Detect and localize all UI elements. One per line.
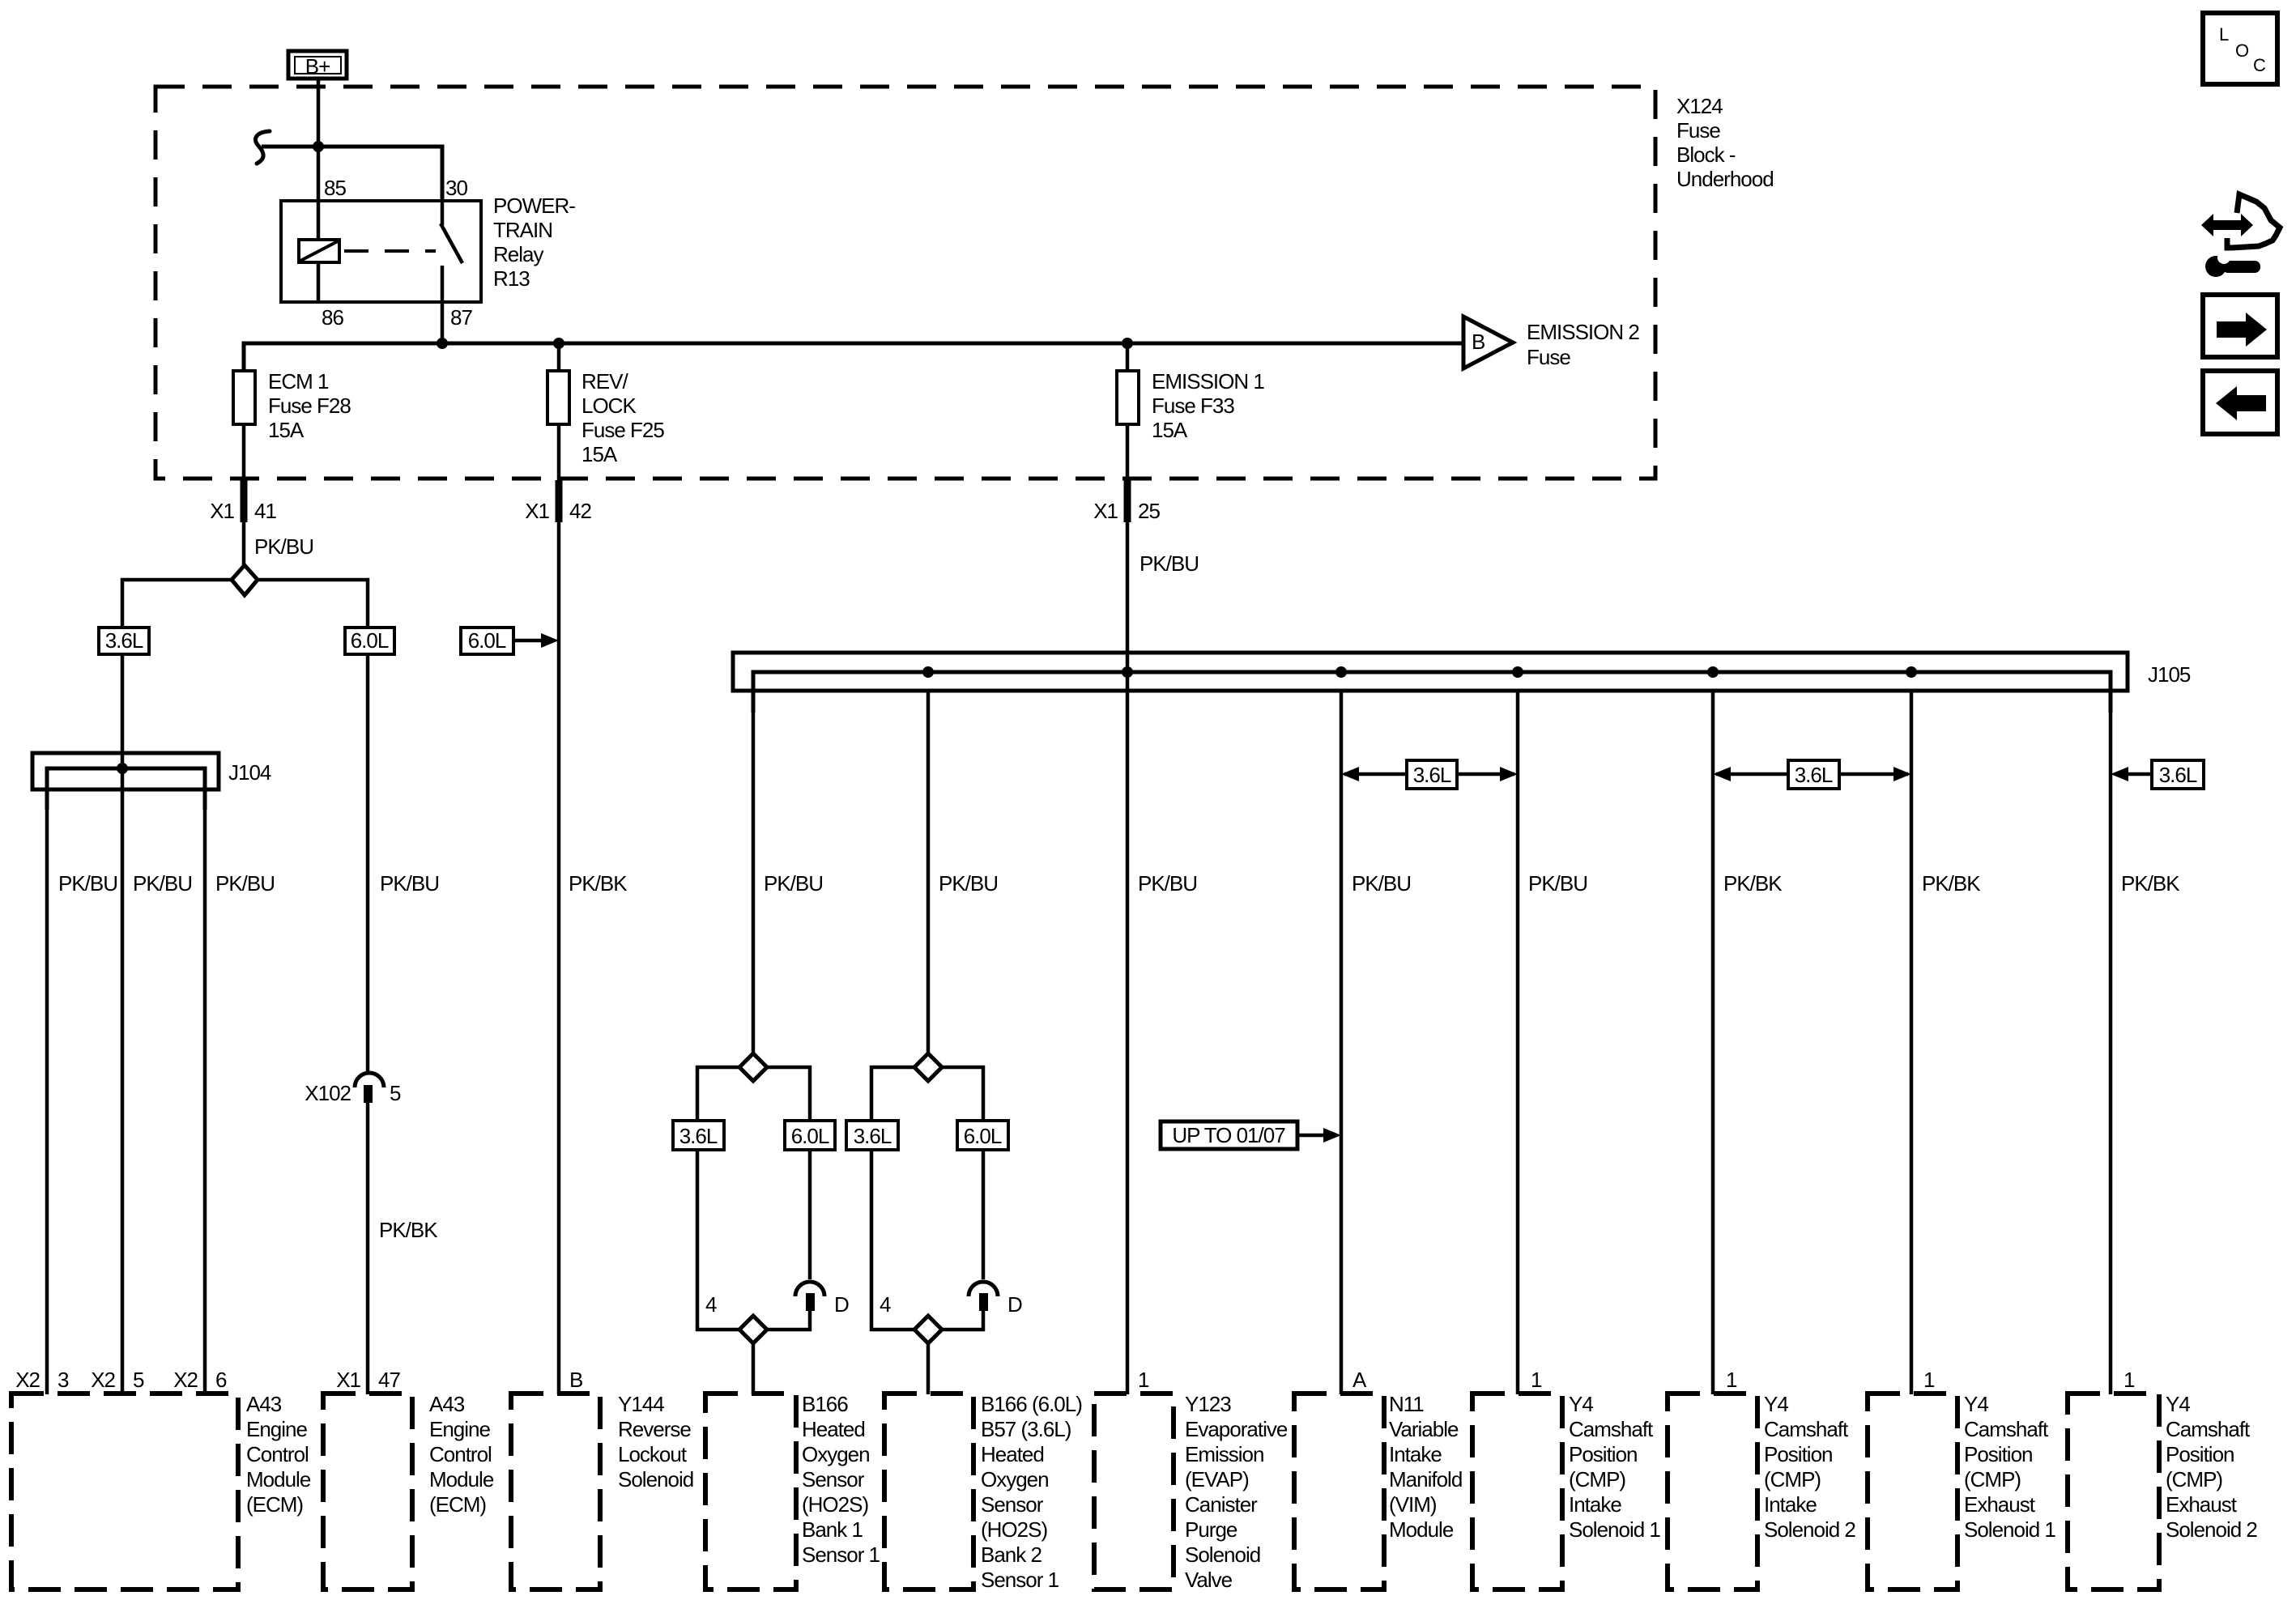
svg-text:PK/BK: PK/BK	[569, 871, 628, 896]
svg-text:1: 1	[2123, 1368, 2135, 1392]
component box Y144 reverse lockout solenoid	[511, 1394, 600, 1589]
svg-text:O: O	[2235, 40, 2249, 61]
svg-text:(CMP): (CMP)	[1964, 1467, 2021, 1491]
svg-text:Block -: Block -	[1676, 143, 1736, 167]
svg-text:X1: X1	[210, 499, 234, 523]
svg-text:3.6L: 3.6L	[854, 1124, 892, 1148]
option tag UP TO 01/07 with arrow to VIM wire	[1161, 1121, 1341, 1149]
svg-text:(CMP): (CMP)	[1569, 1467, 1625, 1491]
wire REV/LOCK fuse down to Y144	[557, 424, 561, 1394]
label Y144 Reverse Lockout Solenoid	[618, 1392, 693, 1491]
wire bank1 6.0L leg	[766, 1067, 810, 1279]
svg-text:15A: 15A	[581, 442, 618, 466]
wire J104 right leg to ECM X2-6	[203, 789, 207, 1394]
svg-text:Variable: Variable	[1389, 1417, 1459, 1441]
svg-text:PK/BK: PK/BK	[2121, 871, 2180, 896]
label B166 B57 HO2S Bank 2 Sensor 1	[981, 1392, 1082, 1592]
junction dot J105 EVAP	[1122, 666, 1133, 678]
svg-text:Y144: Y144	[618, 1392, 664, 1416]
svg-text:Fuse F33: Fuse F33	[1152, 394, 1234, 418]
svg-text:15A: 15A	[1152, 418, 1188, 442]
svg-text:Sensor: Sensor	[981, 1492, 1044, 1517]
junction dot bus/EMISSION1 fuse	[1122, 338, 1133, 349]
svg-text:PK/BU: PK/BU	[1138, 871, 1197, 896]
svg-text:PK/BU: PK/BU	[1352, 871, 1411, 896]
svg-text:Fuse: Fuse	[1676, 118, 1720, 143]
svg-text:Y4: Y4	[2166, 1392, 2190, 1416]
wire bank2 6.0L leg	[941, 1067, 983, 1279]
svg-text:X2: X2	[91, 1368, 115, 1392]
inline connector D bank2	[969, 1282, 1022, 1317]
svg-text:PK/BK: PK/BK	[1723, 871, 1783, 896]
fuse EMISSION 2 triangle outlet B	[1463, 317, 1639, 369]
label N11 Variable Intake Manifold Module	[1389, 1392, 1462, 1542]
inline connector X102 pin 5	[305, 1073, 401, 1105]
splice diamond HO2S bank1 bottom	[739, 1316, 767, 1343]
wire ECM1 fuse down through connector X1-41	[242, 424, 246, 565]
engine tag 3.6L double arrow VIM to CMP1	[1341, 760, 1518, 789]
svg-text:Solenoid 1: Solenoid 1	[1964, 1517, 2055, 1542]
svg-text:A: A	[1352, 1368, 1367, 1392]
component box Y4 CMP intake solenoid 1	[1472, 1394, 1562, 1589]
svg-text:Solenoid: Solenoid	[618, 1467, 693, 1491]
svg-text:Evaporative: Evaporative	[1185, 1417, 1288, 1441]
svg-text:Relay: Relay	[493, 242, 543, 266]
svg-text:Purge: Purge	[1185, 1517, 1237, 1542]
wire J105 to CMP exhaust solenoid 1	[1910, 691, 1914, 1394]
feed bus wire from ECM1 fuse to EMISSION 2 triangle	[244, 343, 1463, 371]
svg-text:Lockout: Lockout	[618, 1442, 688, 1466]
svg-text:Y123: Y123	[1185, 1392, 1231, 1416]
pin label X1 42	[525, 499, 591, 523]
svg-text:3.6L: 3.6L	[1413, 763, 1451, 787]
wire bank2 3.6L leg	[871, 1067, 915, 1330]
junction dot J105 CMP intake 1	[1512, 666, 1523, 678]
pin label X1 41	[210, 499, 276, 523]
svg-text:6.0L: 6.0L	[964, 1124, 1002, 1148]
splice diamond on X1-41 feed	[232, 565, 258, 595]
label B166 HO2S Bank 1 Sensor 1	[802, 1392, 880, 1567]
component box Y123 EVAP purge valve	[1094, 1394, 1174, 1589]
wire bank1 to B166 sensor	[752, 1343, 756, 1394]
svg-text:Solenoid 2: Solenoid 2	[1764, 1517, 1855, 1542]
svg-text:Emission: Emission	[1185, 1442, 1263, 1466]
component box A43 ECM (X2 side)	[11, 1394, 238, 1589]
svg-text:B: B	[1472, 330, 1485, 354]
splice pack J105	[733, 653, 2191, 713]
engine tag 3.6L bank1	[673, 1121, 724, 1150]
svg-text:Camshaft: Camshaft	[1569, 1417, 1654, 1441]
relay coil	[299, 240, 339, 302]
svg-text:B: B	[569, 1368, 582, 1392]
wire X102 down to ECM X1-47	[366, 1103, 370, 1394]
svg-text:(CMP): (CMP)	[1764, 1467, 1821, 1491]
icon component view (car with arrows and wrench)	[2201, 194, 2280, 277]
svg-text:Y4: Y4	[1764, 1392, 1788, 1416]
svg-text:L: L	[2219, 24, 2229, 45]
component box B166 HO2S bank1	[705, 1394, 796, 1589]
engine tag 3.6L bank2	[846, 1121, 898, 1150]
svg-text:3: 3	[58, 1368, 69, 1392]
svg-text:Position: Position	[1964, 1442, 2033, 1466]
svg-text:PK/BK: PK/BK	[379, 1218, 438, 1242]
svg-text:Y4: Y4	[1569, 1392, 1593, 1416]
svg-text:6.0L: 6.0L	[351, 628, 389, 653]
fuse F28 ECM 1	[233, 369, 351, 442]
icon back arrow box	[2203, 371, 2277, 434]
svg-text:Position: Position	[1569, 1442, 1638, 1466]
svg-text:PK/BU: PK/BU	[764, 871, 823, 896]
svg-text:X1: X1	[336, 1368, 360, 1392]
svg-text:Canister: Canister	[1185, 1492, 1258, 1517]
label Y4 CMP Exhaust Solenoid 2	[2166, 1392, 2257, 1542]
svg-text:X1: X1	[1093, 499, 1118, 523]
wire bank1 6.0L leg to bottom diamond	[768, 1311, 810, 1330]
svg-text:PK/BK: PK/BK	[1922, 871, 1981, 896]
svg-text:Camshaft: Camshaft	[1964, 1417, 2049, 1441]
engine tag 3.6L (left branch)	[99, 628, 149, 654]
svg-text:PK/BU: PK/BU	[254, 534, 313, 559]
junction dot at B+ / pin30 tap	[313, 141, 324, 152]
wire diamond right branch to 6.0L path	[257, 580, 368, 1072]
wire J104 left leg to ECM X2-3	[45, 789, 49, 1394]
svg-text:Intake: Intake	[1569, 1492, 1621, 1517]
wire bank2 6.0L leg to bottom diamond	[943, 1311, 983, 1330]
component box A43 ECM (X1 side)	[323, 1394, 412, 1589]
svg-text:PK/BU: PK/BU	[133, 871, 192, 896]
svg-text:EMISSION 1: EMISSION 1	[1152, 369, 1264, 394]
svg-text:Engine: Engine	[246, 1417, 307, 1441]
icon LOC box	[2203, 13, 2277, 84]
svg-text:A43: A43	[429, 1392, 465, 1416]
svg-text:Solenoid 1: Solenoid 1	[1569, 1517, 1660, 1542]
svg-text:5: 5	[133, 1368, 144, 1392]
relay actuating dashed link	[344, 249, 436, 253]
pin label X2 6	[173, 1368, 227, 1392]
splice diamond HO2S bank1 top	[739, 1053, 767, 1081]
wire bank2 to B166/B57 sensor	[926, 1343, 931, 1394]
svg-text:(HO2S): (HO2S)	[802, 1492, 868, 1517]
svg-text:1: 1	[1923, 1368, 1935, 1392]
fuse F33 EMISSION 1	[1117, 343, 1264, 442]
label Y4 CMP Intake Solenoid 1	[1569, 1392, 1660, 1542]
wire relay 87 down to feed bus	[441, 302, 445, 343]
svg-text:EMISSION 2: EMISSION 2	[1527, 320, 1639, 344]
svg-text:6.0L: 6.0L	[791, 1124, 829, 1148]
svg-text:5: 5	[390, 1081, 401, 1105]
svg-text:30: 30	[445, 176, 467, 200]
wire J105 to CMP intake solenoid 1	[1516, 691, 1520, 1394]
svg-text:PK/BU: PK/BU	[1139, 551, 1199, 576]
svg-text:3.6L: 3.6L	[105, 628, 143, 653]
connector tick X1 41	[241, 480, 248, 522]
svg-text:25: 25	[1138, 499, 1160, 523]
engine tag 6.0L bank2	[957, 1121, 1008, 1150]
engine tag 6.0L bank1	[785, 1121, 835, 1150]
svg-text:X102: X102	[305, 1081, 351, 1105]
svg-text:Reverse: Reverse	[618, 1417, 691, 1441]
svg-text:1: 1	[1531, 1368, 1542, 1392]
svg-text:3.6L: 3.6L	[679, 1124, 718, 1148]
svg-text:A43: A43	[246, 1392, 282, 1416]
svg-text:(VIM): (VIM)	[1389, 1492, 1437, 1517]
pin label X1 25	[1093, 499, 1160, 523]
wire J105 to CMP intake solenoid 2	[1711, 691, 1715, 1394]
svg-text:PK/BU: PK/BU	[1528, 871, 1587, 896]
svg-text:Sensor 1: Sensor 1	[981, 1568, 1059, 1592]
svg-text:B+: B+	[305, 54, 330, 79]
wire bank1 3.6L leg	[697, 1067, 740, 1330]
engine tag 6.0L (right branch)	[345, 628, 394, 654]
svg-text:Fuse: Fuse	[1527, 345, 1570, 369]
svg-text:Sensor: Sensor	[802, 1467, 865, 1491]
svg-text:1: 1	[1726, 1368, 1737, 1392]
svg-text:Camshaft: Camshaft	[2166, 1417, 2251, 1441]
junction dot 87/bus	[437, 338, 448, 349]
pin label X2 3	[15, 1368, 69, 1392]
engine tag 3.6L double arrow CMP2 to CMP exh1	[1713, 760, 1911, 789]
splice pack J104	[32, 753, 271, 810]
svg-text:PK/BU: PK/BU	[215, 871, 275, 896]
svg-text:15A: 15A	[268, 418, 305, 442]
svg-text:Bank 1: Bank 1	[802, 1517, 863, 1542]
svg-text:(ECM): (ECM)	[246, 1492, 303, 1517]
svg-text:D: D	[834, 1292, 849, 1317]
svg-text:86: 86	[322, 305, 343, 330]
svg-text:Manifold: Manifold	[1389, 1467, 1462, 1491]
junction dot J105 CMP exhaust 1	[1906, 666, 1917, 678]
svg-text:85: 85	[324, 176, 346, 200]
engine tag 6.0L with arrow to X1-42 wire	[461, 628, 559, 654]
svg-text:Fuse F28: Fuse F28	[268, 394, 351, 418]
svg-text:J105: J105	[2148, 662, 2191, 687]
svg-text:Intake: Intake	[1764, 1492, 1817, 1517]
inline connector D bank1	[795, 1282, 849, 1317]
component box Y4 CMP intake solenoid 2	[1668, 1394, 1757, 1589]
svg-text:Heated: Heated	[802, 1417, 865, 1441]
component box N11 VIM module	[1294, 1394, 1384, 1589]
fuse block X124 dashed box	[155, 87, 1655, 479]
svg-text:Camshaft: Camshaft	[1764, 1417, 1849, 1441]
label A43 Engine Control Module ECM	[246, 1392, 311, 1517]
label X124 Fuse Block - Underhood	[1676, 94, 1774, 191]
svg-text:Bank 2: Bank 2	[981, 1543, 1042, 1567]
svg-text:J104: J104	[228, 760, 271, 785]
svg-text:PK/BU: PK/BU	[380, 871, 439, 896]
svg-text:6.0L: 6.0L	[468, 628, 506, 653]
relay R1 POWERTRAIN relay box	[281, 201, 481, 302]
relay switch blade pin 30 to 87	[441, 202, 462, 302]
svg-text:B166 (6.0L): B166 (6.0L)	[981, 1392, 1082, 1416]
splice diamond HO2S bank2 top	[914, 1053, 942, 1081]
svg-text:ECM 1: ECM 1	[268, 369, 329, 394]
svg-text:POWER-: POWER-	[493, 194, 575, 218]
svg-text:D: D	[1007, 1292, 1022, 1317]
component box B166/B57 HO2S bank2	[884, 1394, 973, 1589]
splice diamond HO2S bank2 bottom	[914, 1316, 942, 1343]
svg-text:Solenoid 2: Solenoid 2	[2166, 1517, 2257, 1542]
relay label POWER-TRAIN Relay R13	[493, 194, 575, 291]
svg-text:Exhaust: Exhaust	[2166, 1492, 2238, 1517]
svg-text:PK/BU: PK/BU	[939, 871, 998, 896]
wire J105 to CMP exhaust solenoid 2	[2109, 691, 2113, 1394]
svg-text:4: 4	[705, 1292, 717, 1317]
svg-text:Solenoid: Solenoid	[1185, 1543, 1260, 1567]
label Y123 EVAP Canister Purge Solenoid Valve	[1185, 1392, 1288, 1592]
svg-text:Control: Control	[429, 1442, 492, 1466]
label A43 Engine Control Module ECM 2	[429, 1392, 494, 1517]
svg-text:3.6L: 3.6L	[2159, 763, 2197, 787]
svg-text:Oxygen: Oxygen	[802, 1442, 870, 1466]
wire J105 to HO2S bank1 split	[752, 691, 756, 1054]
junction dot bus/REV LOCK fuse	[553, 338, 564, 349]
junction dot J104 center	[117, 763, 128, 774]
svg-text:3.6L: 3.6L	[1795, 763, 1833, 787]
component box Y4 CMP exhaust solenoid 2	[2068, 1394, 2159, 1589]
wire J105 to N11 VIM pin A	[1340, 691, 1344, 1394]
icon forward arrow box	[2203, 295, 2277, 357]
svg-text:Module: Module	[246, 1467, 311, 1491]
svg-text:LOCK: LOCK	[581, 394, 637, 418]
svg-text:N11: N11	[1389, 1392, 1424, 1416]
svg-text:X124: X124	[1676, 94, 1723, 118]
svg-text:(ECM): (ECM)	[429, 1492, 486, 1517]
connector tick X1 25	[1124, 480, 1131, 522]
svg-text:X1: X1	[525, 499, 549, 523]
svg-text:Position: Position	[1764, 1442, 1833, 1466]
svg-text:B57 (3.6L): B57 (3.6L)	[981, 1417, 1071, 1441]
svg-text:1: 1	[1138, 1368, 1149, 1392]
svg-text:Module: Module	[429, 1467, 494, 1491]
svg-text:Oxygen: Oxygen	[981, 1467, 1049, 1491]
component box Y4 CMP exhaust solenoid 1	[1868, 1394, 1957, 1589]
svg-text:47: 47	[378, 1368, 400, 1392]
svg-text:6: 6	[215, 1368, 227, 1392]
label Y4 CMP Intake Solenoid 2	[1764, 1392, 1855, 1542]
pin label X2 5	[91, 1368, 144, 1392]
svg-text:C: C	[2253, 55, 2266, 75]
connector tick X1 42	[556, 480, 563, 522]
engine tag 3.6L arrow to CMP exhaust 2	[2111, 760, 2204, 789]
svg-text:REV/: REV/	[581, 369, 628, 394]
svg-text:TRAIN: TRAIN	[493, 218, 552, 242]
wire J105 to HO2S bank2 split	[926, 691, 931, 1054]
svg-text:X2: X2	[15, 1368, 40, 1392]
svg-text:B166: B166	[802, 1392, 848, 1416]
svg-text:(CMP): (CMP)	[2166, 1467, 2222, 1491]
svg-text:X2: X2	[173, 1368, 198, 1392]
svg-text:Heated: Heated	[981, 1442, 1044, 1466]
power node B+	[288, 51, 347, 79]
label Y4 CMP Exhaust Solenoid 1	[1964, 1392, 2055, 1542]
svg-text:R13: R13	[493, 266, 530, 291]
svg-text:87: 87	[450, 305, 472, 330]
svg-text:4: 4	[880, 1292, 891, 1317]
svg-text:Sensor 1: Sensor 1	[802, 1543, 880, 1567]
pin label X1 47	[336, 1368, 400, 1392]
junction dot J105 HO2S bank2	[922, 666, 934, 678]
wire B+ down to relay coil pin 85	[317, 79, 321, 240]
wire stub with hook to relay pin 30	[255, 131, 442, 202]
svg-text:Position: Position	[2166, 1442, 2234, 1466]
svg-text:41: 41	[254, 499, 276, 523]
wire EMISSION1 fuse down to Y123	[1126, 424, 1130, 1394]
svg-text:Fuse F25: Fuse F25	[581, 418, 664, 442]
svg-text:(HO2S): (HO2S)	[981, 1517, 1047, 1542]
fuse F25 REV/LOCK	[547, 343, 664, 466]
svg-text:(EVAP): (EVAP)	[1185, 1467, 1249, 1491]
svg-text:Exhaust: Exhaust	[1964, 1492, 2036, 1517]
svg-text:Underhood: Underhood	[1676, 167, 1774, 191]
svg-text:Module: Module	[1389, 1517, 1454, 1542]
svg-text:Valve: Valve	[1185, 1568, 1233, 1592]
svg-text:Control: Control	[246, 1442, 309, 1466]
svg-text:Intake: Intake	[1389, 1442, 1442, 1466]
svg-text:Engine: Engine	[429, 1417, 490, 1441]
svg-text:UP TO 01/07: UP TO 01/07	[1172, 1123, 1285, 1147]
svg-text:Y4: Y4	[1964, 1392, 1988, 1416]
junction dot J105 CMP intake 2	[1707, 666, 1719, 678]
svg-text:PK/BU: PK/BU	[58, 871, 117, 896]
wire diamond left branch to 3.6L path	[122, 580, 232, 1394]
junction dot J105 VIM	[1335, 666, 1347, 678]
svg-text:42: 42	[569, 499, 591, 523]
